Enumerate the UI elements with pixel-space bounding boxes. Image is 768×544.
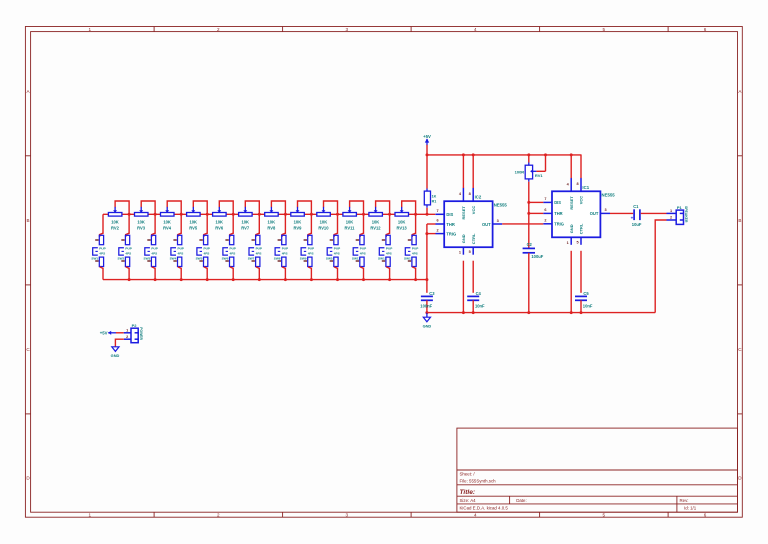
svg-text:+5V: +5V: [423, 134, 431, 139]
svg-text:10uF: 10uF: [632, 222, 642, 227]
svg-text:1: 1: [89, 27, 92, 32]
svg-text:10K: 10K: [372, 219, 380, 224]
svg-text:Sheet: /: Sheet: /: [460, 471, 476, 476]
svg-text:VCC: VCC: [471, 206, 476, 215]
svg-text:10K: 10K: [163, 219, 171, 224]
svg-text:Date:: Date:: [516, 498, 527, 503]
svg-text:TRIG: TRIG: [554, 222, 564, 227]
svg-text:5: 5: [576, 240, 578, 244]
svg-text:OUT: OUT: [590, 211, 599, 216]
svg-text:THR: THR: [554, 211, 562, 216]
svg-text:RV5: RV5: [189, 225, 198, 230]
svg-text:4PS: 4PS: [151, 251, 157, 255]
svg-text:C1: C1: [633, 204, 639, 209]
svg-text:4PS: 4PS: [308, 251, 314, 255]
svg-text:RV6: RV6: [215, 225, 224, 230]
svg-text:C2: C2: [527, 242, 533, 247]
svg-text:4PS: 4PS: [386, 251, 392, 255]
svg-text:NE555: NE555: [494, 203, 508, 208]
svg-text:PUP: PUP: [256, 247, 262, 251]
svg-text:RV11: RV11: [345, 225, 356, 230]
svg-text:100R: 100R: [515, 169, 525, 174]
svg-text:4: 4: [474, 27, 477, 32]
svg-text:POWER: POWER: [139, 327, 143, 340]
svg-text:1K: 1K: [432, 195, 437, 199]
svg-text:P1: P1: [677, 205, 683, 210]
svg-text:RV1: RV1: [535, 173, 543, 178]
svg-text:Id: 1/1: Id: 1/1: [684, 505, 697, 510]
svg-text:B: B: [738, 218, 741, 223]
svg-text:+: +: [631, 215, 634, 220]
svg-text:SW5: SW5: [196, 256, 203, 260]
svg-text:GND: GND: [111, 353, 120, 358]
svg-text:4PS: 4PS: [230, 251, 236, 255]
svg-text:SW1: SW1: [91, 256, 98, 260]
svg-text:10K: 10K: [137, 219, 145, 224]
svg-text:Title:: Title:: [460, 489, 476, 496]
svg-text:PUP: PUP: [386, 247, 392, 251]
svg-text:1: 1: [89, 512, 92, 517]
svg-text:2: 2: [217, 512, 220, 517]
svg-text:+5V: +5V: [100, 331, 108, 336]
svg-text:5: 5: [603, 27, 606, 32]
svg-text:SW4: SW4: [170, 256, 177, 260]
svg-text:File: 555Synth.sch: File: 555Synth.sch: [460, 478, 497, 483]
svg-text:100uF: 100uF: [531, 254, 543, 259]
svg-text:GND: GND: [423, 323, 432, 328]
svg-text:Size: A4: Size: A4: [460, 498, 477, 503]
svg-text:5: 5: [603, 512, 606, 517]
svg-text:10K: 10K: [294, 219, 302, 224]
svg-text:2: 2: [126, 335, 128, 339]
svg-text:RV12: RV12: [370, 225, 381, 230]
svg-text:1: 1: [126, 328, 128, 332]
svg-text:GND: GND: [461, 234, 466, 243]
svg-text:4PS: 4PS: [125, 251, 131, 255]
svg-text:3: 3: [346, 512, 349, 517]
svg-text:6: 6: [704, 512, 707, 517]
svg-text:2: 2: [437, 228, 439, 232]
svg-text:PUP: PUP: [308, 247, 314, 251]
svg-text:RV8: RV8: [267, 225, 276, 230]
svg-text:10K: 10K: [346, 219, 354, 224]
svg-text:7: 7: [437, 209, 439, 213]
svg-text:Rev:: Rev:: [680, 498, 689, 503]
svg-text:KiCad E.D.A. kicad 4.0.5: KiCad E.D.A. kicad 4.0.5: [460, 505, 509, 510]
svg-text:6: 6: [544, 208, 546, 212]
svg-text:PUP: PUP: [360, 247, 366, 251]
svg-text:GND: GND: [569, 224, 574, 233]
svg-text:3: 3: [497, 219, 499, 223]
svg-text:RV13: RV13: [397, 225, 408, 230]
svg-text:PUP: PUP: [99, 247, 105, 251]
svg-text:CTRL: CTRL: [471, 233, 476, 244]
svg-text:3: 3: [346, 27, 349, 32]
svg-text:4PS: 4PS: [412, 251, 418, 255]
svg-text:RV3: RV3: [137, 225, 146, 230]
svg-text:7: 7: [544, 197, 546, 201]
svg-text:4: 4: [474, 512, 477, 517]
svg-text:2: 2: [544, 219, 546, 223]
svg-text:PUP: PUP: [125, 247, 131, 251]
svg-text:PUP: PUP: [412, 247, 418, 251]
svg-text:4PS: 4PS: [99, 251, 105, 255]
svg-text:4PS: 4PS: [334, 251, 340, 255]
svg-text:4PS: 4PS: [360, 251, 366, 255]
svg-text:SW8: SW8: [274, 256, 281, 260]
svg-text:2: 2: [670, 216, 672, 220]
svg-text:OUT: OUT: [482, 222, 491, 227]
svg-text:PUP: PUP: [334, 247, 340, 251]
svg-text:10K: 10K: [111, 219, 119, 224]
svg-text:4PS: 4PS: [256, 251, 262, 255]
svg-text:10K: 10K: [189, 219, 197, 224]
svg-text:RV9: RV9: [293, 225, 302, 230]
svg-text:RESET: RESET: [461, 206, 466, 220]
svg-text:10K: 10K: [320, 219, 328, 224]
svg-text:100nF: 100nF: [420, 304, 432, 309]
svg-text:RESET: RESET: [569, 196, 574, 210]
svg-text:10K: 10K: [268, 219, 276, 224]
svg-text:SW3: SW3: [144, 256, 151, 260]
svg-text:8: 8: [576, 182, 578, 186]
svg-text:PUP: PUP: [151, 247, 157, 251]
svg-text:TRIG: TRIG: [446, 231, 456, 236]
svg-text:DIS: DIS: [554, 200, 561, 205]
svg-text:B: B: [26, 218, 29, 223]
svg-text:10K: 10K: [241, 219, 249, 224]
svg-text:4PS: 4PS: [204, 251, 210, 255]
svg-text:4PS: 4PS: [178, 251, 184, 255]
svg-text:CTRL: CTRL: [579, 223, 584, 234]
svg-text:C3: C3: [429, 291, 435, 296]
svg-text:NE555: NE555: [602, 193, 616, 198]
svg-text:IC2: IC2: [475, 195, 482, 200]
svg-text:10nF: 10nF: [583, 304, 593, 309]
svg-text:RV10: RV10: [318, 225, 329, 230]
svg-text:C4: C4: [476, 291, 482, 296]
svg-text:SW11: SW11: [352, 256, 361, 260]
svg-text:SW7: SW7: [248, 256, 255, 260]
svg-text:IC1: IC1: [582, 185, 589, 190]
svg-text:C5: C5: [583, 291, 589, 296]
svg-text:10nF: 10nF: [475, 304, 485, 309]
svg-text:PUP: PUP: [178, 247, 184, 251]
svg-text:6: 6: [437, 219, 439, 223]
svg-text:RV7: RV7: [241, 225, 250, 230]
svg-text:1: 1: [459, 251, 461, 255]
svg-text:RV4: RV4: [163, 225, 172, 230]
svg-text:P2: P2: [132, 323, 138, 328]
svg-text:8: 8: [469, 192, 471, 196]
svg-text:PUP: PUP: [282, 247, 288, 251]
svg-text:10K: 10K: [215, 219, 223, 224]
svg-text:SPEAKER: SPEAKER: [684, 206, 688, 223]
svg-text:2: 2: [217, 27, 220, 32]
svg-text:PUP: PUP: [204, 247, 210, 251]
svg-text:THR: THR: [446, 222, 454, 227]
svg-text:PUP: PUP: [230, 247, 236, 251]
svg-text:SW2: SW2: [118, 256, 125, 260]
svg-text:1: 1: [567, 241, 569, 245]
svg-text:R1: R1: [432, 200, 437, 204]
svg-text:3: 3: [604, 208, 606, 212]
svg-text:10K: 10K: [398, 219, 406, 224]
svg-text:4PS: 4PS: [282, 251, 288, 255]
svg-text:6: 6: [704, 27, 707, 32]
svg-text:5: 5: [469, 250, 471, 254]
svg-text:VCC: VCC: [579, 196, 584, 205]
svg-text:SW6: SW6: [222, 256, 229, 260]
svg-text:RV2: RV2: [111, 225, 120, 230]
svg-text:SW9: SW9: [300, 256, 307, 260]
svg-text:DIS: DIS: [446, 212, 453, 217]
svg-text:1: 1: [670, 209, 672, 213]
